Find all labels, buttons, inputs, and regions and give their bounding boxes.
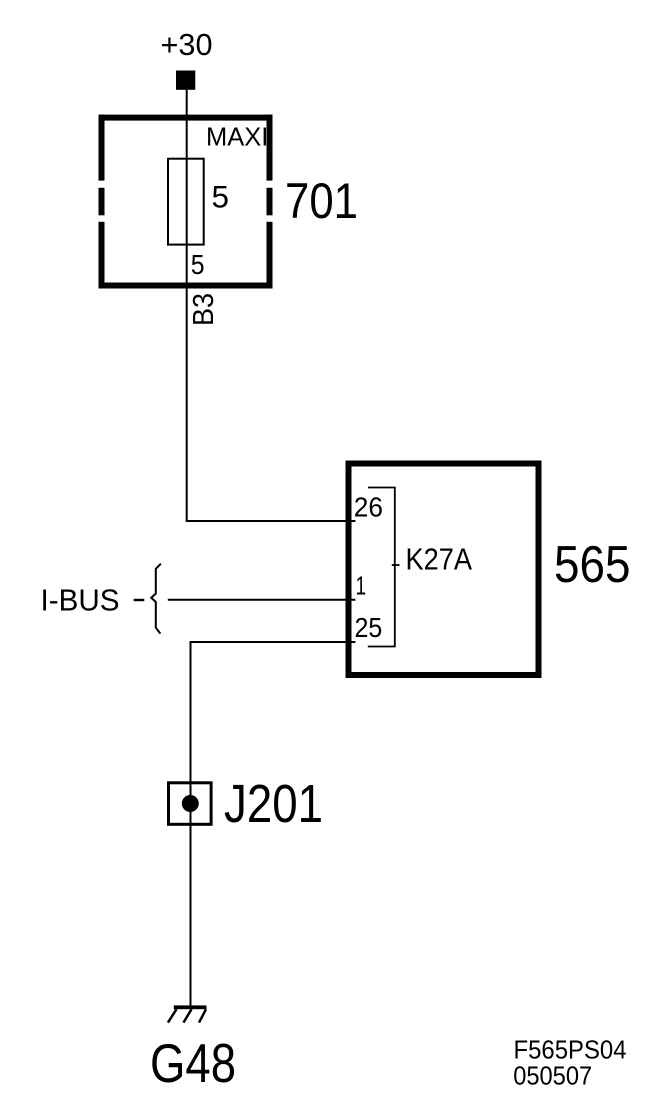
svg-text:1: 1 — [356, 573, 367, 601]
wire pin 25 down to ground — [190, 641, 192, 1005]
junction J201 square — [169, 783, 212, 825]
svg-text:701: 701 — [285, 172, 358, 229]
svg-text:F565PS04: F565PS04 — [514, 1035, 627, 1065]
svg-text:565: 565 — [554, 535, 631, 593]
supply terminal node (filled square) — [176, 71, 195, 90]
wire horizontal into pin 26 — [186, 520, 356, 522]
svg-text:+30: +30 — [161, 27, 213, 62]
svg-text:J201: J201 — [224, 775, 323, 834]
svg-text:B3: B3 — [188, 293, 220, 326]
control module box 565 — [349, 464, 539, 676]
svg-text:5: 5 — [212, 179, 230, 215]
wire from +30 terminal down through fuse to corner — [186, 90, 188, 521]
junction J201 dot — [182, 795, 199, 812]
fuse box 701 frame (dashed sides) — [99, 115, 273, 289]
svg-text:26: 26 — [354, 492, 383, 523]
wire I-BUS to pin 1 — [168, 599, 356, 601]
dash after I-BUS — [134, 599, 145, 601]
fuse element rectangle — [168, 159, 204, 245]
svg-text:K27A: K27A — [406, 542, 473, 577]
svg-text:5: 5 — [191, 249, 205, 280]
svg-text:050507: 050507 — [513, 1063, 592, 1091]
svg-text:25: 25 — [355, 612, 383, 643]
svg-text:MAXI: MAXI — [206, 124, 268, 152]
wire pin 25 horizontal — [191, 641, 356, 643]
ground symbol — [168, 1005, 207, 1022]
bus brace — [151, 564, 161, 634]
connector bracket K27A — [368, 488, 400, 647]
svg-text:I-BUS: I-BUS — [41, 583, 120, 617]
svg-text:G48: G48 — [150, 1032, 236, 1094]
